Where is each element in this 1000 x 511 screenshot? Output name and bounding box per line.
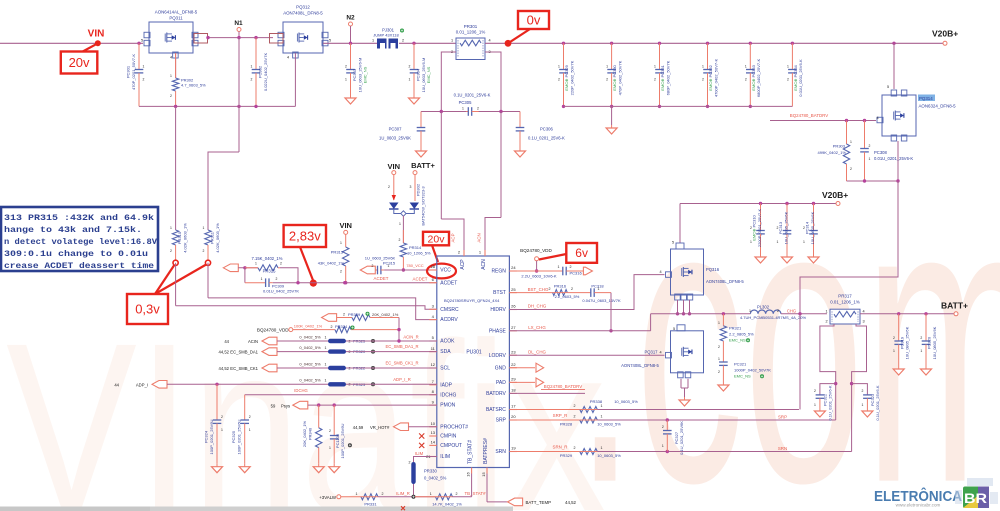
wire BATT+ diode stub red — [414, 175, 416, 201]
pin 2 PR316 b — [571, 287, 573, 291]
svg-text:crease ACDET deassert time: crease ACDET deassert time — [4, 261, 154, 271]
net label BQ24780_BATDRV top — [790, 113, 828, 118]
pin 2 PL302 — [777, 309, 779, 313]
resistor PR329 — [509, 449, 597, 455]
svg-text:www.eletronicabr.com: www.eletronicabr.com — [896, 502, 941, 507]
resistor PR303 — [843, 121, 849, 182]
pin 2 PC315 — [372, 264, 374, 268]
pin 1 PL302 — [749, 309, 751, 313]
value PC334 0.01U_0201_25V6-K — [798, 59, 803, 97]
resistor PR324 — [293, 327, 399, 333]
value PR338 10_0603_5% — [614, 399, 638, 404]
svg-text:PR310: PR310 — [177, 231, 182, 244]
net label SRN_R — [553, 444, 568, 449]
svg-text:VIN: VIN — [388, 162, 401, 171]
ground PC313 — [782, 254, 793, 263]
svg-text:PC303: PC303 — [352, 68, 357, 81]
value PC304 10U_0603_25V6-M — [421, 58, 426, 93]
svg-text:2: 2 — [558, 78, 560, 82]
junction PC301 top — [137, 42, 140, 45]
svg-text:0_0402_5%: 0_0402_5% — [424, 476, 447, 481]
svg-text:4: 4 — [287, 56, 289, 60]
pin 8 IDCHG stub — [429, 394, 437, 396]
probe dot 0v — [505, 40, 512, 47]
value PC320 10U_0805_25V6K — [932, 326, 937, 359]
watermark right — [575, 114, 1000, 511]
svg-text:44: 44 — [114, 382, 119, 387]
pin 17 BATSRC stub — [509, 409, 517, 411]
callout box 6v — [566, 243, 597, 263]
pin 1 PR310 — [170, 226, 172, 230]
ground PC325 — [239, 464, 250, 473]
svg-text:PC306: PC306 — [540, 127, 553, 132]
svg-text:BQ24780SRUYR_QFN24_4X4: BQ24780SRUYR_QFN24_4X4 — [444, 298, 500, 303]
svg-text:19: 19 — [511, 446, 516, 451]
svg-text:EMC⊕ PC329: EMC⊕ PC329 — [564, 64, 569, 90]
wire N1 stub — [238, 32, 240, 38]
transistor PQ314 — [877, 90, 916, 141]
value PC1106 100P_0201_25V6U — [340, 423, 345, 458]
pin 5 ACOK stub — [429, 340, 437, 342]
svg-text:PHASE: PHASE — [489, 328, 507, 334]
value PR317 0.01_1206_1% — [830, 300, 860, 305]
gray bar bottom — [0, 507, 513, 511]
wire PR317 pin3 kelvin — [852, 324, 867, 452]
svg-text:PR324: PR324 — [335, 324, 348, 329]
pin name ACDET — [440, 280, 457, 286]
svg-text:1: 1 — [340, 241, 342, 245]
wire PAD pin stub — [509, 381, 535, 383]
capacitor PC327 — [663, 420, 672, 452]
svg-text:2: 2 — [409, 65, 411, 69]
refdes PQ316 — [706, 267, 720, 272]
refdes PJ301 — [382, 28, 395, 33]
net label CHG — [787, 308, 796, 313]
pin name BATDRV — [486, 391, 506, 397]
junction N2 — [349, 42, 352, 45]
svg-text:DL_CHG: DL_CHG — [528, 349, 546, 354]
wire PR331 to node — [378, 496, 436, 498]
svg-text:PR303: PR303 — [833, 144, 846, 149]
svg-text:2: 2 — [814, 389, 816, 393]
svg-text:2: 2 — [920, 336, 922, 340]
junction source bus b — [896, 179, 899, 182]
junction PC313 top — [785, 202, 788, 205]
value PR328 10_0603_5% — [597, 422, 621, 427]
svg-text:2: 2 — [372, 264, 374, 268]
underline BQ24780_BATDRV — [541, 388, 585, 390]
pin 2 PC334 — [787, 78, 789, 82]
refdes PC330 EMC — [612, 64, 617, 90]
svg-text:10: 10 — [431, 421, 436, 426]
svg-text:BATT_TEMP: BATT_TEMP — [526, 500, 552, 505]
svg-text:ILIM: ILIM — [440, 454, 450, 460]
pin number 27 (PHASE) — [511, 325, 516, 330]
refdes PR338 — [590, 399, 603, 404]
pin 2 ACP stub — [463, 250, 465, 256]
pin number 22 (GND) — [511, 362, 516, 367]
svg-text:7.15K_0402_1%: 7.15K_0402_1% — [252, 256, 283, 261]
pin 1 PC313 — [777, 240, 779, 244]
refdes PR339 — [348, 312, 361, 317]
pin number 7 (IADP) — [432, 379, 435, 384]
junction src c — [688, 312, 691, 315]
svg-text:2: 2 — [170, 249, 172, 253]
value PR303 499K_0402_1% — [818, 150, 847, 155]
svg-text:1: 1 — [388, 264, 390, 268]
pin number 28 (VCC) — [431, 264, 436, 269]
refdes PR320 — [353, 349, 366, 354]
svg-text:2: 2 — [345, 65, 347, 69]
svg-text:1: 1 — [325, 379, 327, 383]
svg-text:1: 1 — [143, 65, 145, 69]
pin 1 PC303 — [345, 78, 347, 82]
svg-text:100K_0402_1%: 100K_0402_1% — [294, 324, 323, 329]
net name Psys — [281, 403, 290, 408]
svg-text:SRN: SRN — [778, 446, 787, 451]
svg-text:1: 1 — [749, 309, 751, 313]
svg-text:6v: 6v — [575, 246, 588, 260]
junction CHG riser — [798, 312, 801, 315]
junction PC329 top — [562, 42, 565, 45]
svg-text:4: 4 — [876, 116, 878, 120]
value PR329 10_0603_5% — [597, 453, 621, 458]
refdes PR317 — [838, 294, 852, 299]
sheet number EC_SMB_CK1 — [219, 366, 230, 371]
pin 2 PC333 — [745, 78, 747, 82]
refdes PQ314 highlighted — [918, 95, 935, 102]
pin number 4 (ACDRV) — [432, 314, 435, 319]
svg-text:PC320: PC320 — [927, 336, 932, 349]
pin 1 PC327 — [662, 444, 664, 448]
port VR_HOT# — [394, 423, 409, 431]
svg-text:2: 2 — [280, 262, 282, 266]
net label BQ24780_BATDRV pin — [544, 384, 582, 389]
pin name TB_STAT# — [468, 440, 474, 464]
svg-text:BTST: BTST — [493, 290, 506, 296]
refdes PC321 — [734, 362, 747, 367]
refdes PC329 EMC — [564, 64, 569, 90]
svg-text:1: 1 — [601, 446, 603, 450]
refdes PC319 — [899, 336, 904, 349]
svg-text:44,52: 44,52 — [219, 366, 230, 371]
pin number 10 (PROCHOT#) — [431, 421, 436, 426]
svg-text:4.02K_0603_1%: 4.02K_0603_1% — [215, 223, 220, 253]
port Psys — [293, 401, 308, 409]
junction src a — [676, 312, 679, 315]
no-connect PR333 — [401, 506, 405, 510]
svg-text:1: 1 — [598, 287, 600, 291]
svg-text:10U_0805_25V6K: 10U_0805_25V6K — [905, 326, 910, 359]
svg-text:ADP_I: ADP_I — [136, 382, 148, 387]
value PC310 2200P_0201_25V7-K — [757, 209, 762, 248]
refdes PR321 — [729, 326, 742, 331]
wire cap bank bottom bus — [564, 105, 793, 107]
svg-text:24: 24 — [511, 265, 516, 270]
svg-text:2: 2 — [574, 404, 576, 408]
svg-text:2: 2 — [571, 287, 573, 291]
ground PC321 — [718, 382, 729, 391]
svg-text:BST_CHG: BST_CHG — [528, 287, 549, 292]
net label ACIN_R — [403, 335, 418, 340]
net label DL_CHG — [528, 349, 546, 354]
value PR314 10_1206_5% — [407, 251, 431, 256]
wire LX bus — [651, 313, 751, 315]
pin 2 PR329 — [574, 446, 576, 450]
svg-text:0.1U_0201_25V6K: 0.1U_0201_25V6K — [679, 421, 684, 455]
refdes PR315 — [263, 269, 276, 274]
pin number 3 (CMSRC) — [432, 304, 435, 309]
svg-text:2: 2 — [777, 309, 779, 313]
resistor PR322 0-ohm — [328, 366, 346, 370]
svg-text:EMC⊕ PC332: EMC⊕ PC332 — [708, 64, 713, 90]
svg-text:PAD: PAD — [496, 380, 506, 386]
capacitor PC321 — [719, 359, 728, 382]
net label VIN mid — [339, 221, 352, 230]
capacitor PC315 — [375, 266, 384, 275]
pin 2 PC302 — [251, 78, 253, 82]
pin 2 PJ301 — [402, 39, 404, 43]
svg-text:0_0402_5%: 0_0402_5% — [299, 361, 321, 366]
net label DH_CHG — [528, 304, 547, 309]
junction PC334 top — [791, 42, 794, 45]
svg-text:PR313: PR313 — [331, 250, 344, 255]
label AON7408L_DFN8-5 (PQ316) — [706, 279, 744, 284]
refdes PR329 — [560, 453, 573, 458]
svg-text:PC313: PC313 — [778, 221, 783, 234]
svg-text:2: 2 — [203, 249, 205, 253]
net label ILIM — [415, 451, 424, 456]
svg-text:0,3v: 0,3v — [135, 302, 160, 317]
net label EC_SMB_DA1_R — [385, 344, 418, 349]
value PR315 7.15K_0402_1% — [252, 256, 283, 261]
svg-text:BQ24780_BATDRV: BQ24780_BATDRV — [790, 113, 828, 118]
resistor PR325 0-ohm — [328, 339, 346, 343]
pin 10 PROCHOT# stub — [429, 426, 437, 428]
wire kelvin bus left — [421, 111, 466, 113]
refdes PR303 — [833, 144, 846, 149]
svg-text:PC321: PC321 — [734, 362, 747, 367]
pin 2 PR324 — [331, 325, 333, 329]
svg-text:n detect volatege level:16.8V: n detect volatege level:16.8V — [4, 237, 158, 247]
pin 1 PC324 — [221, 428, 223, 432]
marker PR323 — [371, 382, 375, 386]
svg-text:0.01_1206_1%: 0.01_1206_1% — [456, 30, 486, 35]
pin number 19 (SRN) — [511, 446, 516, 451]
svg-text:0.01U_0402_25V7K: 0.01U_0402_25V7K — [263, 289, 299, 294]
transistor PQ316 — [666, 249, 704, 300]
svg-text:2: 2 — [249, 415, 251, 419]
junction PC320 top — [924, 312, 927, 315]
svg-text:BATSRC: BATSRC — [486, 407, 506, 413]
svg-text:10U_0603_25V6-M: 10U_0603_25V6-M — [421, 58, 426, 93]
svg-text:2: 2 — [718, 370, 720, 374]
refdes PC313 — [778, 221, 783, 234]
pin 11 SDA stub — [429, 351, 437, 353]
svg-text:PR329: PR329 — [560, 453, 573, 458]
wire PQ316 src b — [683, 300, 685, 314]
svg-text:1U_0603_25V6K: 1U_0603_25V6K — [379, 136, 411, 141]
refdes PC1106 — [335, 433, 340, 448]
value PC319 10U_0805_25V6K — [905, 326, 910, 359]
svg-text:3: 3 — [410, 185, 412, 189]
refdes PC325 — [231, 430, 236, 443]
svg-text:PC307: PC307 — [389, 127, 402, 132]
sheet number ACIN — [224, 339, 229, 344]
pin 1 PC322 — [814, 403, 816, 407]
marker PC321 — [760, 374, 764, 378]
resistor PR338 — [509, 407, 597, 413]
svg-text:PU301: PU301 — [466, 350, 482, 356]
svg-text:ACOK: ACOK — [440, 339, 455, 345]
svg-text:3: 3 — [862, 320, 864, 324]
net label +3VALW — [319, 495, 337, 500]
pin 1 PR325 — [325, 335, 327, 339]
svg-text:10_0603_5%: 10_0603_5% — [597, 453, 621, 458]
refdes PR325 — [353, 339, 366, 344]
wire PQ316 src a — [677, 300, 679, 314]
label AON6324_DFN8-5 (PQ314) — [919, 104, 957, 109]
net label BQ24780_VDD regn — [520, 248, 552, 253]
svg-text:14: 14 — [431, 440, 436, 445]
no-connect arrow PAD — [536, 378, 544, 387]
wire ACDET bus — [273, 282, 437, 284]
value PR301 0.01_1206_1% — [456, 30, 486, 35]
svg-text:1: 1 — [372, 39, 374, 43]
svg-text:680P_0402_50V7K: 680P_0402_50V7K — [665, 60, 670, 95]
wire CHG to PR317 — [781, 313, 827, 315]
svg-text:1000P_0402_50V7K: 1000P_0402_50V7K — [734, 368, 771, 373]
refdes PC301 — [126, 65, 131, 78]
callout line 6v — [539, 254, 566, 260]
pin 2 PR320 — [349, 350, 351, 354]
net label N1 — [234, 20, 243, 27]
svg-text:HIDRV: HIDRV — [490, 307, 506, 313]
pin 3 PD302 — [410, 185, 412, 189]
value 0_0402_5% PR323 — [299, 378, 321, 383]
wire IDCHG — [245, 394, 437, 396]
value PR340 20K_0402_1% — [302, 420, 307, 447]
svg-text:PR340: PR340 — [307, 427, 312, 440]
note box — [1, 207, 158, 271]
svg-text:4: 4 — [659, 270, 661, 274]
net label TB_STAT# — [464, 491, 486, 496]
resistor PR339 — [337, 315, 399, 321]
refdes PR302 — [181, 78, 194, 83]
value PC330 470P_0402_50V7K — [617, 60, 622, 95]
svg-text:15: 15 — [481, 472, 486, 477]
pin name REGN — [491, 269, 506, 275]
sheet number Psys — [271, 403, 276, 408]
pin 2 PR339 — [343, 313, 345, 317]
ground PC307 — [416, 148, 427, 157]
pin 1 PR321 — [718, 321, 720, 325]
svg-text:20K_0402_1%: 20K_0402_1% — [302, 420, 307, 447]
junction ACOK riser — [397, 339, 400, 342]
svg-text:2: 2 — [251, 78, 253, 82]
junction PC333 top — [749, 42, 752, 45]
pin 1 PC316 — [558, 265, 560, 269]
inductor PL302 coil — [750, 310, 781, 314]
junction PR303 top — [845, 119, 848, 122]
pin number 11 (SDA) — [431, 346, 436, 351]
node BQ24780_VDD left — [289, 328, 293, 332]
svg-text:PC304: PC304 — [416, 68, 421, 81]
svg-text:BAT54CW_SOT323-3: BAT54CW_SOT323-3 — [421, 186, 426, 226]
value PC323 0.1U_0201_25V6-K — [875, 385, 880, 420]
wire PR301 pin3 down — [485, 52, 501, 112]
svg-text:1: 1 — [558, 265, 560, 269]
pin 2 PR328 — [574, 415, 576, 419]
pin 22 GND stub — [509, 367, 517, 369]
refdes PC309 — [272, 283, 285, 288]
svg-text:20K_0402_1%: 20K_0402_1% — [372, 312, 399, 317]
pin 2 PC305 — [477, 107, 479, 111]
value PC314 10U_0805_25V6K — [810, 211, 815, 244]
pin 7 IADP stub — [429, 384, 437, 386]
wire jog to PR311 — [208, 152, 239, 230]
svg-text:EMC_NS: EMC_NS — [426, 66, 431, 83]
pin 9 PMON stub — [429, 404, 437, 406]
svg-text:0.1U_0201_25V6-K: 0.1U_0201_25V6-K — [454, 93, 491, 98]
junction PC330 top — [610, 42, 613, 45]
svg-text:2: 2 — [340, 270, 342, 274]
wire PR315 to bus — [280, 268, 298, 283]
capacitor PC305 — [466, 107, 479, 116]
pin 2 PC331 — [654, 78, 656, 82]
probe dot VIN — [95, 40, 101, 46]
wire ACN sense down — [500, 112, 502, 218]
svg-text:220P_0402_50V7K: 220P_0402_50V7K — [569, 60, 574, 95]
svg-text:1: 1 — [814, 403, 816, 407]
svg-text:10_0603_5%: 10_0603_5% — [597, 422, 621, 427]
junction source bus a — [863, 179, 866, 182]
value PR310 4.02K_0603_1% — [183, 223, 188, 253]
refdes PR322 — [353, 366, 366, 371]
capacitor PC308 — [860, 121, 869, 182]
pin 1 PC321 — [718, 357, 720, 361]
svg-text:4: 4 — [659, 350, 661, 354]
refdes PC327 — [674, 431, 679, 444]
capacitor PC310 — [756, 204, 765, 255]
wire CHG riser — [799, 314, 801, 410]
capacitor PC301 — [135, 43, 144, 106]
ground PC310 — [755, 254, 766, 263]
pin 2 PR303 — [850, 167, 852, 171]
svg-text:2,83v: 2,83v — [289, 229, 321, 244]
wire Psys to PMON — [308, 404, 437, 406]
junction N1 bus — [237, 105, 240, 108]
probe circle PR310 — [173, 260, 178, 265]
resistor PR310 — [172, 230, 178, 263]
capacitor PC318 — [567, 288, 611, 297]
svg-text:PMON: PMON — [440, 403, 455, 409]
junction PC304 tap — [412, 42, 415, 45]
svg-text:2: 2 — [745, 78, 747, 82]
callout box 0v — [518, 11, 549, 29]
svg-text:BATPRES#: BATPRES# — [483, 438, 489, 464]
svg-text:BQ24780_VDD: BQ24780_VDD — [257, 328, 289, 333]
pin name ILIM — [440, 454, 450, 460]
pin 2 PC319 — [893, 336, 895, 340]
wire PJ301 to PR301 — [399, 42, 456, 44]
svg-text:1: 1 — [654, 65, 656, 69]
svg-text:1: 1 — [203, 226, 205, 230]
svg-text:ACIN: ACIN — [248, 339, 258, 344]
pin name CMPOUT — [440, 443, 462, 449]
node BATT+ — [954, 312, 958, 316]
junction PC327 bottom — [666, 450, 669, 453]
